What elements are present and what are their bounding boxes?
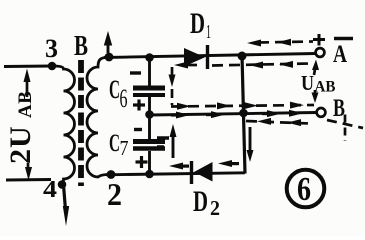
- svg-text:4: 4: [43, 177, 57, 203]
- svg-text:6: 6: [297, 171, 311, 208]
- svg-text:B: B: [333, 95, 345, 122]
- svg-text:3: 3: [45, 34, 58, 63]
- svg-text:C: C: [109, 75, 120, 104]
- svg-text:2: 2: [210, 196, 220, 220]
- svg-text:D: D: [190, 7, 205, 40]
- svg-text:B: B: [74, 30, 88, 62]
- svg-text:AB: AB: [315, 79, 336, 96]
- svg-text:U: U: [301, 71, 314, 95]
- svg-text:AB: AB: [15, 91, 36, 118]
- svg-text:C: C: [109, 130, 120, 157]
- svg-text:A: A: [333, 41, 347, 68]
- svg-text:7: 7: [120, 136, 129, 160]
- svg-text:D: D: [193, 185, 208, 218]
- svg-text:2U: 2U: [4, 125, 37, 164]
- svg-text:1: 1: [206, 21, 211, 43]
- svg-text:6: 6: [120, 84, 128, 113]
- svg-text:2: 2: [107, 176, 122, 212]
